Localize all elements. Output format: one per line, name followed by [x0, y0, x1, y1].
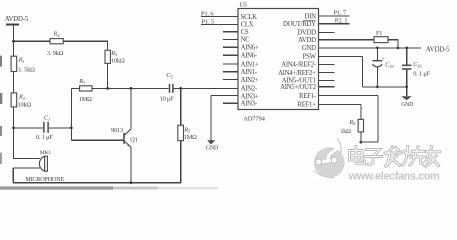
- svg-text:NC: NC: [241, 37, 251, 44]
- svg-text:10kΩ: 10kΩ: [18, 101, 32, 108]
- svg-text:CLX: CLX: [241, 22, 254, 29]
- svg-text:DVDD: DVDD: [297, 30, 316, 37]
- watermark chinese text 电子发烧友 (drawn strokes, outlined style): [350, 147, 440, 167]
- svg-text:1MΩ: 1MΩ: [79, 96, 92, 103]
- svg-text:GND: GND: [206, 146, 218, 152]
- wire Q1 emitter drop: [130, 147, 132, 182]
- svg-text:AVDD: AVDD: [298, 37, 316, 44]
- wire C19 stems: [376, 48, 378, 60]
- wire mid rail left segment: [71, 87, 79, 89]
- wire mic down leg: [12, 168, 14, 183]
- svg-text:REF1+: REF1+: [297, 102, 316, 109]
- svg-text:DIN: DIN: [305, 13, 317, 20]
- svg-text:GND: GND: [401, 102, 413, 108]
- ground GND1 symbol (left of IC bottom): [207, 140, 215, 144]
- wire mic top: [14, 157, 41, 159]
- capacitor C1 plates: [43, 122, 45, 133]
- svg-text:PSW: PSW: [303, 54, 317, 61]
- wire AVDD-5 rail from GND pin: [319, 47, 422, 49]
- resistor R1 1.5k box: [11, 56, 17, 71]
- svg-text:1MΩ: 1MΩ: [184, 134, 197, 141]
- wire R6 stem bottom to bottom rail: [180, 141, 182, 184]
- resistor R3 1M horizontal box: [80, 86, 92, 91]
- resistor R5 10k vertical box: [105, 50, 110, 63]
- wire bottom rail: [13, 182, 181, 184]
- svg-text:REF1-: REF1-: [299, 93, 317, 100]
- svg-text:AVDD-5: AVDD-5: [426, 46, 450, 53]
- stubs IC left side: [223, 31, 238, 33]
- stubs IC right side: [319, 31, 335, 33]
- svg-text:AD7794: AD7794: [243, 116, 265, 123]
- svg-text:DOUT/RDY: DOUT/RDY: [283, 21, 316, 28]
- svg-text:+: +: [382, 56, 385, 62]
- resistor R8 1k box: [358, 119, 363, 131]
- svg-text:3. 9kΩ: 3. 9kΩ: [47, 50, 64, 57]
- capacitor C16 plates: [402, 64, 411, 66]
- wire R5 bottom to mid rail: [107, 63, 109, 89]
- svg-text:AIN3-: AIN3-: [241, 101, 258, 108]
- svg-text:AIN6+: AIN6+: [241, 45, 259, 52]
- wire net DOUT/RDY to P2.1: [319, 23, 350, 25]
- svg-text:U5: U5: [239, 2, 246, 9]
- wire F1 to corner down: [388, 39, 398, 41]
- svg-text:10kΩ: 10kΩ: [111, 58, 125, 65]
- svg-text:AIN2-: AIN2-: [241, 86, 258, 93]
- wire GND1 net from AIN3+: [211, 95, 238, 97]
- svg-text:10 μF: 10 μF: [160, 96, 175, 103]
- wire top to R4: [14, 40, 51, 42]
- wire ground rail right: [362, 86, 406, 88]
- wire net P1.5 to CLX: [201, 23, 238, 25]
- svg-text:0. 1 μF: 0. 1 μF: [36, 134, 53, 141]
- wire vertical x71 from mid rail down to base node: [70, 88, 72, 140]
- svg-text:P2. 1: P2. 1: [335, 18, 348, 25]
- wire mic bottom: [13, 167, 40, 169]
- resistor R2 10k box: [11, 93, 17, 107]
- svg-text:AIN1-: AIN1-: [241, 69, 258, 76]
- svg-text:AIN5+/OUT2: AIN5+/OUT2: [280, 84, 316, 91]
- svg-text:CS: CS: [241, 29, 249, 36]
- wire R8 bottom: [360, 132, 362, 142]
- junction node dots: [12, 40, 15, 43]
- svg-text:Q1: Q1: [130, 137, 138, 144]
- resistor R6 1M vertical box: [178, 125, 184, 141]
- wire collector drop from mid rail: [130, 88, 132, 128]
- svg-text:MICROPHONE: MICROPHONE: [25, 176, 64, 183]
- capacitor C19 plates (electrolytic): [372, 60, 382, 62]
- svg-text:AIN3+: AIN3+: [241, 93, 259, 100]
- wire net P1.6 to SCLK: [201, 16, 238, 18]
- svg-text:AIN4-/REF2-: AIN4-/REF2-: [281, 62, 316, 69]
- wire PSW to ground rail: [319, 55, 363, 57]
- wire REF1+ to R8: [319, 103, 361, 105]
- transistor Q1 9013: [124, 129, 131, 148]
- wire AVDD pin to F1: [319, 39, 375, 41]
- svg-text:1. 5kΩ: 1. 5kΩ: [18, 67, 35, 74]
- svg-text:0. 1 μF: 0. 1 μF: [413, 70, 430, 77]
- wire REF1- loop: [319, 95, 378, 97]
- svg-text:AIN1+: AIN1+: [241, 61, 259, 68]
- wire C1 row: rail to C1: [14, 127, 44, 129]
- svg-text:P1. 6: P1. 6: [201, 11, 214, 18]
- svg-text:GND: GND: [302, 45, 316, 52]
- svg-text:AIN6-: AIN6-: [241, 53, 258, 60]
- wire R3 to C5: [92, 87, 169, 89]
- svg-text:P1. 7: P1. 7: [333, 10, 346, 17]
- svg-text:www.elecfans.com: www.elecfans.com: [348, 170, 441, 182]
- svg-text:SCLK: SCLK: [241, 14, 258, 21]
- svg-text:AVDD-5: AVDD-5: [5, 16, 29, 23]
- microphone MK1 symbol: [39, 156, 47, 171]
- wire C16 stems: [406, 48, 408, 65]
- svg-text:P1. 5: P1. 5: [201, 18, 214, 25]
- wire net DIN to P1.7: [319, 15, 350, 17]
- fuse F1 box: [374, 37, 388, 43]
- svg-text:AIN2+: AIN2+: [241, 77, 259, 84]
- svg-text:AIN4+/REF2+: AIN4+/REF2+: [278, 70, 316, 77]
- wire C1 to x71 junction: [49, 127, 72, 129]
- wire GND2 stem: [406, 87, 408, 96]
- scan artifacts: bottom bar + left edge marks: [0, 186, 113, 189]
- wire C5 to IC pin AIN2-: [174, 87, 238, 89]
- wire R6 stem top: [180, 88, 182, 125]
- watermark logo elecfans: [311, 137, 345, 182]
- svg-text:9013: 9013: [111, 127, 123, 134]
- overline on RDY: [303, 20, 315, 22]
- svg-text:1kΩ: 1kΩ: [340, 128, 351, 135]
- svg-text:F1: F1: [376, 30, 382, 37]
- capacitor C5 plates: [169, 84, 171, 93]
- ground GND2 symbol (right, below C16): [401, 96, 411, 100]
- wire base node to Q1 base: [71, 139, 123, 141]
- IC U5 AD7794 box: [238, 9, 319, 110]
- svg-text:MK1: MK1: [40, 150, 52, 156]
- wire corner down to R5: [107, 41, 109, 50]
- wire left rail: [13, 24, 15, 159]
- resistor R4 3.9k horizontal box: [50, 39, 63, 44]
- wire R4 to corner: [63, 40, 108, 42]
- power symbol AVDD-5 left: [6, 23, 19, 25]
